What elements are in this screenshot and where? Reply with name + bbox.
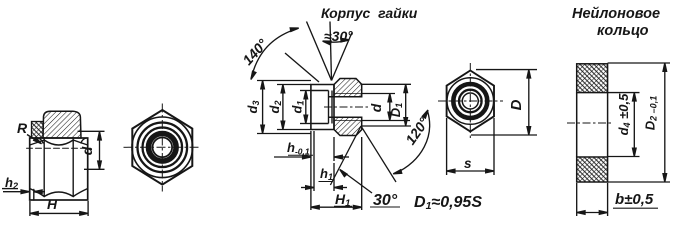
cone flank line 140 bbox=[285, 53, 319, 82]
d4 extension lines bbox=[608, 92, 640, 94]
d dimension (view1) extension top bbox=[78, 130, 105, 132]
facet chamfer arc right bbox=[73, 189, 88, 197]
approx30 arc arrows bbox=[323, 38, 350, 45]
D dimension bbox=[527, 70, 531, 135]
120 cone flank extended (line D) bbox=[361, 126, 396, 182]
svg-text:d4 ±0,5: d4 ±0,5 bbox=[616, 93, 632, 136]
svg-text:D1≈0,95S: D1≈0,95S bbox=[414, 194, 482, 212]
title neylonovoye koltso bbox=[572, 6, 660, 39]
H dimension extension right bbox=[87, 201, 89, 216]
bearing circle bbox=[453, 84, 487, 118]
140 arc bbox=[251, 28, 299, 80]
svg-text:D2 –0,1: D2 –0,1 bbox=[643, 96, 659, 130]
axis centerline bbox=[324, 106, 370, 108]
centerline vertical bbox=[469, 63, 471, 139]
d3 extension lines bbox=[257, 80, 311, 82]
ring bottom block crosshatched bbox=[577, 157, 608, 182]
leader vertical from title bbox=[330, 22, 332, 81]
collar outline bbox=[311, 85, 334, 130]
svg-text:Корпус гайки: Корпус гайки bbox=[321, 5, 418, 21]
collar recess bottom wall bbox=[311, 123, 329, 125]
circle 2 bbox=[138, 123, 188, 173]
bore minor line bottom bbox=[329, 116, 362, 118]
hexagon bbox=[447, 71, 494, 132]
b dimension arrows bbox=[577, 211, 608, 215]
d3 dimension bbox=[261, 81, 265, 134]
d2 extension lines bbox=[277, 84, 311, 86]
svg-text:h2: h2 bbox=[5, 175, 18, 191]
s extension left bbox=[446, 118, 448, 175]
svg-text:H: H bbox=[47, 196, 58, 212]
svg-text:30°: 30° bbox=[373, 192, 398, 209]
bore minor line top bbox=[329, 96, 362, 98]
junction collar/hex bbox=[333, 85, 335, 130]
thread ring thick bbox=[149, 134, 177, 162]
svg-text:d1: d1 bbox=[290, 101, 306, 114]
thread major line top bbox=[334, 93, 362, 95]
h dimension arrows bbox=[274, 155, 349, 159]
chamfer circle outer bbox=[132, 117, 193, 178]
label 30deg bbox=[370, 192, 400, 209]
h2 dimension arrows bbox=[2, 189, 45, 194]
b extension lines bbox=[576, 183, 578, 216]
svg-text:Нейлоновое: Нейлоновое bbox=[572, 6, 660, 22]
R leader arrow bbox=[27, 135, 42, 144]
hex facet edge right bbox=[72, 138, 74, 197]
centerline bbox=[567, 122, 613, 124]
d dimension (view1) line bbox=[98, 132, 102, 170]
svg-text:140°: 140° bbox=[239, 36, 271, 69]
hex body outline bbox=[30, 138, 88, 200]
bore circle bbox=[153, 138, 173, 158]
thread hidden dashline bbox=[27, 147, 91, 149]
facet chamfer arc middle bbox=[44, 192, 73, 197]
facet chamfer arc right top bbox=[73, 140, 88, 145]
d1 dimension bbox=[304, 91, 308, 124]
H1 dimension bbox=[311, 205, 362, 209]
D2 dimension bbox=[663, 63, 667, 182]
recess floor bbox=[328, 91, 330, 124]
hatch bottom of hex section bbox=[334, 117, 362, 135]
svg-text:D: D bbox=[508, 99, 525, 110]
ring top block crosshatched bbox=[577, 64, 608, 93]
circle 3 bbox=[143, 128, 183, 168]
d dimension (view1) extension bottom bbox=[84, 168, 105, 170]
crimp slope line (line G) bbox=[330, 126, 361, 185]
nylon ring visible in cutaway (cross-hatched block) bbox=[32, 122, 44, 139]
h1 dimension arrows bbox=[301, 186, 347, 190]
d2 dimension bbox=[281, 85, 285, 130]
d dimension (right) bbox=[388, 94, 392, 121]
facet chamfer arc left top bbox=[30, 140, 45, 145]
chamfer circle bbox=[447, 78, 494, 125]
collar-body fillet right bbox=[81, 138, 86, 143]
s extension right bbox=[493, 118, 495, 175]
label h1 bbox=[319, 166, 334, 182]
svg-text:h-0,1: h-0,1 bbox=[287, 140, 310, 157]
H1 extension right bbox=[361, 137, 363, 210]
D1 dimension bbox=[404, 84, 408, 126]
crimped collar (hatched dome) bbox=[43, 111, 81, 138]
svg-text:кольцо: кольцо bbox=[597, 23, 649, 39]
h extension right bbox=[333, 137, 335, 161]
svg-text:d2: d2 bbox=[267, 101, 283, 114]
centerline horizontal bbox=[438, 100, 503, 102]
thread major line bottom bbox=[334, 120, 362, 122]
svg-text:d3: d3 bbox=[245, 101, 261, 114]
svg-text:s: s bbox=[464, 156, 472, 171]
chamfer flank left bbox=[307, 22, 332, 81]
label H1 bbox=[334, 191, 352, 209]
svg-text:≈30°: ≈30° bbox=[324, 28, 353, 44]
s dimension bbox=[447, 169, 494, 173]
ring side walls bbox=[576, 93, 578, 157]
h1 extension right bbox=[333, 163, 335, 191]
facet chamfer arc left bbox=[30, 189, 45, 197]
hatch top of hex section bbox=[334, 79, 362, 97]
d1 extension lines bbox=[300, 90, 311, 92]
svg-text:d: d bbox=[79, 146, 95, 155]
hex facet edge left bbox=[43, 138, 45, 197]
d4 dimension bbox=[633, 93, 637, 157]
D extension top bbox=[476, 69, 537, 71]
label b bbox=[613, 191, 658, 208]
30deg leader bbox=[340, 170, 372, 194]
H dimension extension left bbox=[29, 201, 31, 216]
svg-text:R: R bbox=[17, 120, 28, 136]
centerline horizontal bbox=[124, 146, 201, 148]
D2 extension lines bbox=[608, 62, 670, 64]
thread circle bbox=[459, 90, 482, 113]
D1 extension lines bbox=[362, 83, 411, 85]
svg-text:h1: h1 bbox=[320, 166, 333, 182]
facet chamfer arc middle top bbox=[44, 140, 73, 145]
label h-0.1 bbox=[287, 140, 313, 157]
D extension bottom bbox=[471, 134, 537, 136]
svg-text:d: d bbox=[368, 103, 384, 112]
h extension left bbox=[310, 131, 312, 210]
hexagon bbox=[132, 110, 192, 185]
h1 extension left bbox=[313, 131, 315, 191]
collar recess top wall bbox=[311, 90, 329, 92]
svg-text:b±0,5: b±0,5 bbox=[615, 191, 654, 208]
centerline vertical bbox=[161, 104, 163, 192]
bore circle bbox=[462, 93, 478, 109]
chamfer flank right bbox=[332, 33, 353, 81]
collar-body fillet left bbox=[38, 138, 43, 143]
H dimension line bbox=[30, 212, 88, 216]
120 arc bbox=[393, 110, 429, 174]
d extension lines (right) bbox=[362, 93, 395, 95]
bottom lip edge bbox=[33, 190, 35, 201]
